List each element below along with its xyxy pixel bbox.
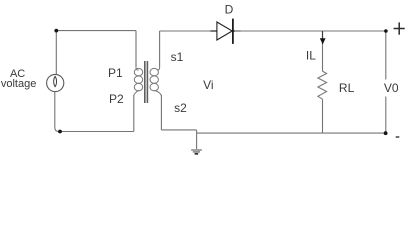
- node dot bottom-left: [58, 130, 62, 134]
- plus terminal: [394, 28, 405, 30]
- wire top rail diode to output node: [235, 30, 386, 32]
- svg-text:P2: P2: [109, 92, 124, 106]
- diode D: [217, 22, 232, 40]
- ground: [191, 149, 202, 151]
- svg-text:RL: RL: [339, 81, 355, 95]
- wire IL branch: [322, 31, 324, 44]
- wire V0 branch: [385, 31, 387, 80]
- wire bottom right rail: [197, 132, 386, 134]
- svg-text:voltage: voltage: [1, 78, 36, 90]
- wire AC source bottom lead: [55, 92, 134, 132]
- node dot top-left: [54, 29, 58, 33]
- wire top rail secondary to diode: [160, 30, 217, 32]
- current arrow IL: [320, 38, 326, 44]
- transformer T1 primary winding P1/P2: [135, 31, 137, 68]
- svg-text:D: D: [225, 3, 234, 17]
- wire top-left rail: [56, 30, 136, 32]
- svg-text:P1: P1: [108, 66, 123, 80]
- node dot bottom-right: [384, 131, 388, 135]
- wire s2 bottom stub: [161, 129, 196, 131]
- transformer T1 secondary winding s1/s2: [159, 31, 161, 68]
- wire AC source top lead: [55, 31, 57, 75]
- AC voltage source: [47, 74, 64, 91]
- diode D cathode lead: [233, 30, 240, 32]
- svg-text:s2: s2: [174, 101, 187, 115]
- diode D anode lead: [211, 30, 217, 32]
- svg-text:s1: s1: [171, 50, 184, 64]
- svg-text:IL: IL: [306, 48, 316, 62]
- svg-text:Vi: Vi: [203, 78, 213, 92]
- resistor RL: [318, 71, 327, 99]
- node dot top-right: [384, 29, 388, 33]
- svg-text:V0: V0: [384, 81, 399, 95]
- minus terminal: [396, 136, 400, 138]
- transformer core: [144, 61, 146, 103]
